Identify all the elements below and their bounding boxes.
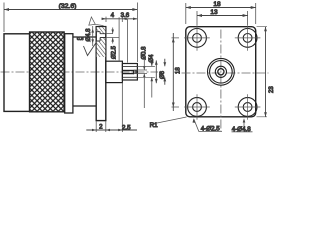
hatch right of counterbore step (below hole) xyxy=(100,38,105,42)
bore lines xyxy=(122,66,137,77)
svg-text:4-Ø2.5: 4-Ø2.5 xyxy=(201,126,220,133)
svg-text:Ø4.8: Ø4.8 xyxy=(86,28,92,42)
Ø4.8 dim (counterbore) xyxy=(92,26,94,46)
mounting hole counterbore outline xyxy=(96,32,106,41)
rear nut (left rectangle) xyxy=(4,34,30,112)
flange hatch top block xyxy=(97,27,106,31)
knurled coupling nut xyxy=(30,32,65,112)
front collar (behind-panel boss) xyxy=(106,61,123,82)
18 left dim xyxy=(172,38,180,107)
4-Ø2.5 label xyxy=(194,119,222,131)
centerlines xyxy=(220,30,222,132)
18 top dim xyxy=(186,3,256,24)
flange plate cross-section column xyxy=(96,27,106,121)
(32.6) overall dim xyxy=(4,3,137,63)
hatch right of counterbore step (above hole) xyxy=(100,32,105,34)
svg-text:18: 18 xyxy=(176,67,182,74)
svg-text:13: 13 xyxy=(210,9,218,16)
front barrel xyxy=(122,64,137,81)
collar ring after knurl xyxy=(65,34,73,113)
surface roughness symbol xyxy=(84,42,97,56)
svg-text:0.8: 0.8 xyxy=(77,36,84,42)
svg-text:Ø2.5: Ø2.5 xyxy=(112,45,118,59)
center connector circles xyxy=(208,58,235,85)
hole crosshairs xyxy=(184,25,260,120)
connector body barrel xyxy=(73,37,96,106)
hatch middle block below hole xyxy=(97,41,106,57)
23 right dim xyxy=(257,27,268,117)
svg-text:Ø0.8: Ø0.8 xyxy=(141,46,147,60)
13 dim xyxy=(197,11,248,25)
svg-text:2.5: 2.5 xyxy=(122,125,131,132)
svg-text:18: 18 xyxy=(213,1,221,8)
Ø2.5 dim (flange hole) xyxy=(106,34,120,38)
R1 label + leader xyxy=(157,117,187,123)
extension line at x127.4 xyxy=(126,19,128,63)
svg-text:2: 2 xyxy=(99,124,103,131)
svg-text:4: 4 xyxy=(111,12,115,19)
center socket contact bars xyxy=(123,70,134,71)
svg-text:(32.6): (32.6) xyxy=(59,3,77,10)
svg-text:3.6: 3.6 xyxy=(121,12,130,19)
4-Ø4.8 label xyxy=(232,120,253,132)
centerline xyxy=(1,71,159,73)
2 / 2.5 bottom dims xyxy=(96,83,122,133)
svg-text:4-Ø4.8: 4-Ø4.8 xyxy=(232,126,251,133)
extension line at x119 xyxy=(118,17,120,61)
Ø6 dim xyxy=(155,60,157,83)
svg-text:R1: R1 xyxy=(150,122,159,129)
Ø4 dim (front barrel) xyxy=(137,66,155,77)
4 / 3.6 dims xyxy=(106,17,122,22)
svg-text:Ø4: Ø4 xyxy=(149,54,155,63)
mounting holes xyxy=(188,29,257,117)
svg-text:23: 23 xyxy=(269,86,274,93)
Ø0.8 dim (pin) xyxy=(134,70,147,74)
plate xyxy=(186,27,256,117)
inner circle dim line xyxy=(164,59,166,85)
hollow triangle surface mark above flange xyxy=(89,17,96,25)
